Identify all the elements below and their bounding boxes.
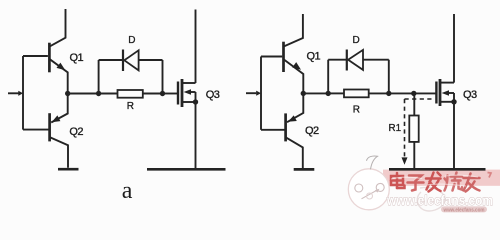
svg-text:Q1: Q1 — [70, 52, 84, 64]
watermark swirl — [417, 187, 445, 211]
resistor R (right) — [328, 90, 389, 98]
node body-source (left) — [193, 99, 198, 104]
wire source drop (left) — [195, 102, 197, 168]
watermark title char 友 — [464, 174, 480, 192]
ground rail (left) — [147, 168, 226, 171]
node emitter junction (left) — [65, 91, 70, 96]
watermark logo inner — [355, 183, 384, 199]
watermark logo stem — [367, 156, 378, 169]
wire — [328, 59, 346, 61]
resistor R1 — [409, 93, 418, 168]
wire gate — [163, 93, 178, 95]
watermark title char 发 — [426, 173, 441, 192]
svg-text:D: D — [353, 35, 360, 46]
svg-text:R: R — [127, 101, 134, 112]
svg-text:www.elecfans.com: www.elecfans.com — [443, 207, 485, 213]
svg-text:R1: R1 — [389, 123, 402, 134]
node D/R right (left ckt) — [160, 91, 165, 96]
transistor Q1 — [49, 9, 67, 92]
svg-text:R: R — [353, 105, 360, 116]
MOSFET Q3 (right) — [436, 79, 454, 106]
watermark title highlight streaks — [391, 175, 478, 186]
watermark small url band — [441, 206, 487, 213]
resistor R — [99, 90, 163, 98]
watermark title char 子 — [408, 176, 424, 191]
node D/R left (left ckt) — [96, 91, 101, 96]
wire Q1 base (right) — [261, 56, 282, 58]
wire source drop (right) — [453, 102, 455, 168]
wire — [99, 59, 123, 61]
wire Q1 base (left) — [23, 55, 48, 57]
transistor Q1 (right) — [284, 14, 304, 92]
svg-text:Q3: Q3 — [206, 89, 220, 101]
transistor Q2 (right) — [286, 96, 304, 169]
watermark title tick — [488, 173, 492, 178]
wire drain riser (right) — [453, 14, 455, 83]
wire — [388, 60, 390, 94]
diode D — [123, 50, 139, 72]
watermark logo circle — [348, 169, 389, 210]
watermark title char 电 — [391, 173, 405, 188]
wire — [162, 60, 164, 94]
input arrow (left) — [8, 91, 23, 96]
svg-text:a: a — [122, 178, 133, 204]
wire — [303, 92, 328, 94]
svg-text:Q2: Q2 — [305, 125, 319, 137]
wire Q2 base (left) — [23, 129, 49, 131]
input arrow (right) — [246, 91, 261, 96]
wire — [139, 59, 163, 61]
svg-text:Q3: Q3 — [463, 89, 477, 101]
watermark band — [383, 170, 500, 186]
node body-source (right) — [451, 99, 456, 104]
watermark title char 烧 — [445, 173, 463, 191]
diode D (right) — [347, 50, 363, 71]
svg-text:D: D — [128, 35, 135, 46]
wire drain riser (left) — [195, 10, 197, 84]
svg-text:www.elecfans.com: www.elecfans.com — [386, 193, 493, 208]
wire input bus (left) — [22, 56, 24, 130]
svg-text:Q2: Q2 — [69, 126, 83, 138]
wire Q2 base (right) — [261, 129, 285, 131]
wire — [389, 92, 436, 94]
wire — [68, 93, 99, 95]
node R1 tap — [411, 91, 416, 96]
node D/R left (right ckt) — [326, 91, 331, 96]
transistor Q2 — [50, 95, 68, 168]
wire input bus (right) — [260, 57, 262, 130]
ground Q2 collector (right) — [294, 168, 315, 171]
wire diode branch riser — [98, 60, 100, 94]
svg-text:Q1: Q1 — [307, 51, 321, 63]
arrowhead of dashed path — [402, 157, 408, 164]
ground Q2 collector (left) — [58, 168, 79, 171]
dashed gate-leak path — [405, 99, 432, 158]
ground rail (right) — [389, 168, 486, 171]
MOSFET Q3 — [178, 79, 196, 107]
node after R (right) — [386, 91, 391, 96]
wire diode branch riser (right) — [327, 60, 329, 94]
node emitter junction (right) — [301, 91, 306, 96]
wire — [363, 59, 389, 61]
